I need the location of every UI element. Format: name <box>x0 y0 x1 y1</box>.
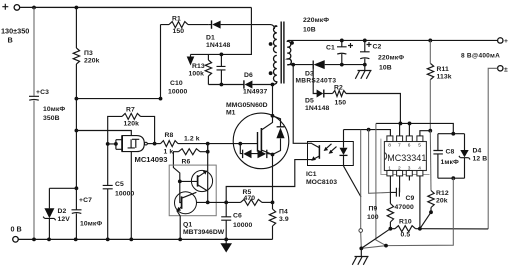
svg-text:+С7: +С7 <box>79 197 92 204</box>
diode D1 1N4148 <box>212 21 220 29</box>
wire HV rail drop to clamp <box>191 8 252 55</box>
svg-text:12V: 12V <box>58 216 71 223</box>
diode D5 1N4148 <box>317 90 324 98</box>
resistor R3 <box>75 8 77 189</box>
capacitor C10 <box>220 54 222 84</box>
svg-text:R8: R8 <box>165 132 174 139</box>
resistor R10 0.5 <box>390 228 395 230</box>
wire gate output <box>147 143 160 145</box>
wire emitter output line <box>196 201 240 203</box>
svg-text:1 k: 1 k <box>164 149 174 156</box>
transistor IC1 photo <box>318 145 320 159</box>
capacitor C2 <box>364 40 366 64</box>
diode D6 1N4937 <box>245 81 253 89</box>
resistor R4 3.9 <box>272 202 274 239</box>
capacitor C8 1uF <box>437 134 439 179</box>
wire D5 feed drop <box>313 65 317 94</box>
wire bottom rail <box>18 238 272 240</box>
svg-text:IC1: IC1 <box>306 171 317 178</box>
transformer T1 primary winding (lower) <box>273 55 277 84</box>
svg-text:120k: 120k <box>124 121 140 128</box>
svg-text:+: + <box>504 38 508 45</box>
svg-text:100k: 100k <box>189 71 205 78</box>
terminal output minus <box>498 66 503 71</box>
node 12V wire junctions on x=76 <box>75 97 79 101</box>
svg-text:MMG05N60D: MMG05N60D <box>226 102 268 109</box>
ground chassis (control common) <box>352 248 368 264</box>
wire 12V feed to R1 (y=99) <box>76 98 160 100</box>
svg-text:1N4937: 1N4937 <box>243 89 268 96</box>
resistor R12 20k <box>429 131 432 191</box>
wire M1 emitter <box>261 150 272 202</box>
ground chassis (secondary common) <box>355 65 371 79</box>
resistor R13 100k <box>207 54 209 84</box>
svg-text:С5: С5 <box>115 181 124 188</box>
svg-text:D2: D2 <box>58 208 67 215</box>
svg-text:Q1: Q1 <box>183 222 192 229</box>
svg-text:8: 8 <box>388 143 391 149</box>
svg-text:1: 1 <box>388 166 391 172</box>
svg-text:R2: R2 <box>334 85 343 92</box>
wire gate input stubs <box>108 140 122 150</box>
wire M1 collector <box>261 85 272 131</box>
wire R1 riser <box>160 25 162 99</box>
optocoupler IC1 MOC8103 <box>308 142 354 166</box>
wire pin4 riser to R10 <box>419 176 421 229</box>
IC U1 top pins <box>387 136 423 142</box>
resistor R5 470 <box>241 199 263 205</box>
transistor Q1b pnp <box>175 192 197 214</box>
gate U2A MC14093 schmitt nand <box>121 136 123 152</box>
svg-text:R1: R1 <box>172 16 181 23</box>
transistor Q1a npn <box>191 170 212 191</box>
svg-text:C1: C1 <box>326 45 335 52</box>
svg-text:1.2 k: 1.2 k <box>184 136 200 143</box>
svg-text:R7: R7 <box>126 107 135 114</box>
wire 12V feed to gate Vdd (y=130.5) <box>76 131 131 136</box>
wire pin7 pin6 risers <box>400 123 410 135</box>
wire M1 gate entry <box>238 142 242 146</box>
capacitor C7 <box>75 188 77 239</box>
wire line A (vcc bus) <box>376 123 453 133</box>
svg-text:3: 3 <box>408 166 411 172</box>
node primary bottom junction <box>271 83 275 87</box>
wire pin1 to R9 <box>389 176 391 204</box>
svg-text:150: 150 <box>173 28 185 35</box>
wire Q1 collector-emitter rail <box>207 144 209 203</box>
svg-text:С6: С6 <box>233 213 242 220</box>
svg-text:R10: R10 <box>399 219 412 226</box>
resistor R11 113k <box>429 40 431 130</box>
resistor R9 100 <box>387 204 393 223</box>
wire ground vertical V1 <box>360 130 363 249</box>
node top-left junction <box>32 6 36 10</box>
svg-text:C9: C9 <box>406 195 415 202</box>
svg-text:10мкФ: 10мкФ <box>43 106 65 113</box>
svg-text:R6: R6 <box>182 159 191 166</box>
svg-text:В: В <box>8 36 13 45</box>
wire top rail <box>20 6 252 8</box>
wire C8/D4 box top & bottom <box>438 134 465 179</box>
svg-text:5: 5 <box>418 143 421 149</box>
svg-text:0 В: 0 В <box>11 225 22 234</box>
svg-text:MOC8103: MOC8103 <box>306 179 337 186</box>
svg-text:10В: 10В <box>379 65 392 72</box>
svg-text:R12: R12 <box>436 190 449 197</box>
svg-text:C2: C2 <box>373 44 382 51</box>
diode M1 internal freewheel <box>273 116 281 155</box>
ground arrow (power ground) <box>225 239 227 244</box>
wire diagonal to R9/R10 node <box>361 229 390 249</box>
svg-text:10000: 10000 <box>168 89 188 96</box>
svg-text:П3: П3 <box>84 50 93 57</box>
wire left input vertical <box>33 8 35 240</box>
svg-text:D6: D6 <box>244 72 253 79</box>
wire secondary top output <box>290 39 431 41</box>
light arrows <box>325 144 337 153</box>
svg-text:7: 7 <box>398 143 401 149</box>
transformer T1 primary winding (upper) <box>273 26 276 53</box>
transistor M1 MMG05N60D <box>233 113 289 169</box>
svg-text:MBT3946DW: MBT3946DW <box>183 229 225 236</box>
capacitor C6 <box>225 202 227 239</box>
IC U1 body scan ghost <box>381 139 430 175</box>
wire gate ground pin <box>130 152 132 240</box>
wire opto collector from secondary <box>293 65 312 143</box>
svg-text:470: 470 <box>244 195 256 202</box>
svg-text:10В: 10В <box>303 27 316 34</box>
svg-text:220мкФ: 220мкФ <box>378 55 404 62</box>
svg-text:+С3: +С3 <box>36 89 49 96</box>
svg-text:100: 100 <box>367 214 379 221</box>
wire LED bottom to ground vertical <box>344 166 362 198</box>
IC U1 pin numbers <box>388 143 421 172</box>
capacitor C5 <box>107 144 109 240</box>
wire line B (pin8 bus) <box>344 130 391 136</box>
svg-text:3.9: 3.9 <box>279 216 289 223</box>
svg-text:C10: C10 <box>170 80 183 87</box>
svg-text:20k: 20k <box>436 198 448 205</box>
wire pin5 riser to R11 <box>420 131 430 136</box>
node winding polarity dots <box>269 42 273 46</box>
svg-text:6: 6 <box>408 143 411 149</box>
svg-text:П4: П4 <box>279 209 288 216</box>
capacitor C1 <box>341 40 343 64</box>
diode M1 gate zeners <box>240 144 272 155</box>
svg-text:0.5: 0.5 <box>401 232 411 239</box>
resistor R6 1.2k <box>200 144 208 152</box>
svg-text:D1: D1 <box>206 35 215 42</box>
transformer secondary winding <box>287 40 291 64</box>
svg-text:1мкФ: 1мкФ <box>441 159 460 166</box>
diode D3 MBRS240T3 <box>312 61 314 69</box>
node ground junction <box>359 247 363 251</box>
wire secondary bottom <box>292 64 314 66</box>
svg-text:47000: 47000 <box>395 204 415 211</box>
LED IC1 <box>343 142 345 166</box>
svg-text:1N4148: 1N4148 <box>305 105 330 112</box>
svg-text:2: 2 <box>398 166 401 172</box>
svg-text:M1: M1 <box>226 110 236 117</box>
svg-text:D5: D5 <box>305 98 314 105</box>
svg-text:MBRS240T3: MBRS240T3 <box>296 78 337 85</box>
svg-text:350В: 350В <box>43 115 60 122</box>
wire pin3 stub <box>408 176 410 181</box>
IC U1 MC33341 body <box>384 142 426 171</box>
resistor R1 <box>161 24 209 26</box>
svg-text:±: ± <box>504 67 508 74</box>
svg-text:220k: 220k <box>84 58 100 65</box>
svg-text:MC14093: MC14093 <box>135 155 168 164</box>
clamp wiper arrow (trimmer R13) <box>190 54 192 57</box>
svg-text:130±350: 130±350 <box>1 27 29 36</box>
wire line A left drop <box>376 123 386 245</box>
resistor R2 150 <box>333 91 347 97</box>
terminal output plus <box>498 38 503 43</box>
wire V2 to C9 <box>369 130 391 194</box>
wire LED top to line B <box>343 130 345 142</box>
transformer core <box>281 22 284 84</box>
svg-text:4: 4 <box>418 166 421 172</box>
resistor R8 1k <box>161 141 179 147</box>
svg-text:10000: 10000 <box>233 222 253 229</box>
svg-text:C8: C8 <box>446 149 455 156</box>
svg-text:220мкФ: 220мкФ <box>303 17 329 24</box>
wire D2 branch <box>49 188 76 239</box>
terminal + (input plus) <box>2 4 8 10</box>
svg-text:12 В: 12 В <box>473 156 488 163</box>
svg-text:1N4148: 1N4148 <box>206 42 231 49</box>
svg-text:D4: D4 <box>473 148 482 155</box>
wire C8/D4 bottom drop <box>361 178 453 248</box>
diode D2 zener 12V <box>44 208 54 218</box>
svg-text:R13: R13 <box>192 63 205 70</box>
wire R10 node to minus terminal <box>420 228 488 230</box>
node rail junctions <box>32 238 36 242</box>
transistor Q1 dual MBT3946DW box <box>169 165 216 216</box>
wire opto emitter out <box>226 160 312 203</box>
svg-text:MC33341: MC33341 <box>387 153 426 163</box>
node R1 riser junction <box>159 97 163 101</box>
capacitor C3 <box>29 96 39 100</box>
svg-text:150: 150 <box>335 100 347 107</box>
svg-text:10мкФ: 10мкФ <box>80 221 102 228</box>
svg-text:П9: П9 <box>369 206 378 213</box>
svg-text:113k: 113k <box>437 74 452 81</box>
svg-text:R11: R11 <box>437 66 450 73</box>
resistor R7 120k feedback <box>108 116 155 143</box>
svg-text:8 В@400мА: 8 В@400мА <box>461 53 500 60</box>
diode D4 zener 12V <box>464 134 466 179</box>
capacitor C9 47000 <box>390 176 399 193</box>
IC U1 bottom pins <box>387 171 423 176</box>
